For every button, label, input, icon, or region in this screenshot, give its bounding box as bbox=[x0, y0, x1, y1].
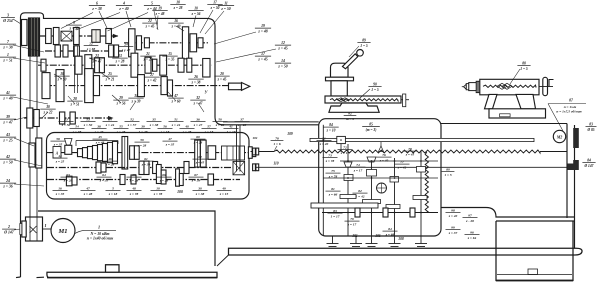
svg-text:z = 25: z = 25 bbox=[2, 138, 12, 142]
svg-text:z = 44: z = 44 bbox=[171, 123, 181, 127]
svg-text:z = 66: z = 66 bbox=[328, 192, 338, 196]
svg-text:42: 42 bbox=[5, 155, 10, 159]
svg-text:z = 18: z = 18 bbox=[204, 130, 214, 134]
svg-text:z - 28: z - 28 bbox=[465, 219, 474, 223]
svg-text:82: 82 bbox=[358, 189, 362, 193]
feed gear X c bbox=[156, 165, 161, 184]
cross slide diamond bbox=[337, 98, 349, 102]
gear on shaft I a bbox=[46, 29, 52, 44]
svg-text:3: 3 bbox=[6, 14, 9, 18]
feed gear IX c bbox=[153, 162, 158, 174]
svg-text:z = 17: z = 17 bbox=[347, 222, 357, 226]
svg-text:z = 18: z = 18 bbox=[160, 130, 170, 134]
feed rod bbox=[255, 166, 567, 168]
apron upper shaft bbox=[340, 160, 438, 162]
apron junction dots bbox=[347, 160, 349, 162]
svg-text:z = 48: z = 48 bbox=[2, 96, 12, 100]
svg-text:Ø 85: Ø 85 bbox=[586, 128, 594, 132]
apron gear h4 bbox=[413, 196, 427, 200]
feed shaft VIII bbox=[47, 152, 248, 154]
feed gear VIII d bbox=[208, 146, 216, 160]
gear on shaft III i bbox=[160, 55, 167, 75]
svg-text:54: 54 bbox=[75, 125, 79, 129]
svg-text:1 = 18: 1 = 18 bbox=[227, 130, 236, 134]
svg-text:24: 24 bbox=[5, 179, 10, 183]
headstock housing outline bbox=[21, 13, 319, 277]
chip pan left diagonal bbox=[217, 255, 229, 266]
svg-text:1 = 42: 1 = 42 bbox=[356, 194, 365, 198]
svg-text:101: 101 bbox=[352, 234, 358, 238]
svg-text:83: 83 bbox=[333, 209, 337, 213]
tailstock center tip bbox=[464, 84, 467, 89]
feed gear VIII pair b bbox=[200, 140, 206, 167]
feed gear X a bbox=[66, 176, 72, 186]
norton bracket line bbox=[76, 140, 118, 142]
svg-text:57: 57 bbox=[207, 125, 211, 129]
hs leader 3 bbox=[108, 13, 149, 32]
spindle nose arrow bbox=[229, 83, 242, 90]
gear on shaft III d bbox=[95, 58, 100, 73]
svg-text:z = 40: z = 40 bbox=[379, 158, 389, 162]
svg-text:29: 29 bbox=[118, 96, 123, 100]
svg-text:М2: М2 bbox=[556, 135, 563, 140]
svg-text:z = 20: z = 20 bbox=[319, 142, 329, 146]
leadscrew plain start bbox=[251, 151, 275, 153]
svg-text:z = 10: z = 10 bbox=[326, 128, 336, 132]
apron box outline bbox=[319, 119, 441, 236]
motor pulley frame bbox=[26, 217, 43, 241]
svg-text:92: 92 bbox=[348, 112, 352, 116]
svg-text:18: 18 bbox=[176, 1, 180, 5]
svg-text:z = 50: z = 50 bbox=[277, 64, 287, 68]
svg-text:М1: М1 bbox=[57, 228, 67, 235]
svg-text:z = 28: z = 28 bbox=[182, 130, 192, 134]
svg-text:N = 10 кВт: N = 10 кВт bbox=[89, 232, 109, 236]
svg-text:z = 48: z = 48 bbox=[95, 140, 105, 144]
feed gear X b bbox=[72, 177, 77, 185]
feed output gear 2 bbox=[252, 149, 255, 157]
apron lower shaft bbox=[322, 212, 438, 214]
svg-text:16: 16 bbox=[174, 19, 178, 23]
svg-text:28: 28 bbox=[72, 97, 77, 101]
apron cross bar bbox=[311, 203, 378, 208]
apron vertical shaft 1 bbox=[322, 125, 324, 236]
svg-text:z = 28: z = 28 bbox=[63, 178, 73, 182]
apron gear h1 bbox=[340, 195, 356, 199]
feed shaft IX bbox=[47, 167, 244, 169]
gear on shaft V c bbox=[60, 112, 65, 124]
motor shaft bbox=[43, 228, 52, 230]
gear on spindle d bbox=[161, 77, 167, 95]
svg-text:z = 28: z = 28 bbox=[105, 162, 115, 166]
svg-text:z = 45: z = 45 bbox=[405, 152, 415, 156]
apron vertical shaft 3 bbox=[371, 158, 373, 236]
svg-text:16: 16 bbox=[58, 187, 62, 191]
svg-text:z = 45: z = 45 bbox=[257, 57, 267, 61]
svg-text:98: 98 bbox=[451, 209, 455, 213]
right pedestal outline bbox=[496, 221, 573, 281]
reverse bevel gear bbox=[65, 139, 73, 146]
svg-text:z = 39: z = 39 bbox=[141, 162, 151, 166]
shaft V arrow bbox=[108, 116, 114, 120]
svg-text:10: 10 bbox=[156, 187, 160, 191]
belt line left bbox=[29, 56, 31, 217]
tool post stem bbox=[331, 81, 347, 96]
svg-text:13: 13 bbox=[118, 54, 122, 58]
svg-text:z = 28: z = 28 bbox=[116, 130, 126, 134]
belt line right bbox=[36, 56, 38, 217]
svg-text:37: 37 bbox=[239, 118, 244, 122]
gear on shaft II d bbox=[182, 27, 188, 59]
svg-text:z = 28: z = 28 bbox=[237, 123, 247, 127]
feed gear VIII b bbox=[130, 146, 135, 160]
svg-text:z = 17: z = 17 bbox=[340, 151, 350, 155]
cross slide plate bbox=[325, 96, 401, 103]
norton cone gears bbox=[78, 149, 83, 157]
svg-text:n = 1х40 об/мин: n = 1х40 об/мин bbox=[87, 237, 113, 241]
cross slide screw wavy bbox=[330, 99, 398, 101]
svg-text:z = 60: z = 60 bbox=[171, 99, 181, 103]
svg-text:z = 57: z = 57 bbox=[127, 123, 137, 127]
svg-text:1 = 5: 1 = 5 bbox=[444, 173, 451, 177]
svg-text:1 = 6: 1 = 6 bbox=[273, 142, 280, 146]
svg-text:z = 50: z = 50 bbox=[57, 77, 67, 81]
gear on shaft III b bbox=[75, 56, 82, 74]
tumbler lever box bbox=[53, 147, 61, 159]
apron gear v2 bbox=[367, 170, 377, 177]
bed top line right bbox=[441, 123, 567, 125]
svg-text:74: 74 bbox=[356, 163, 360, 167]
svg-text:z = 37: z = 37 bbox=[448, 231, 458, 235]
hs leader 11 bbox=[42, 112, 48, 118]
svg-text:z = 50: z = 50 bbox=[83, 123, 93, 127]
feed gear IX f bbox=[184, 162, 189, 174]
feed gear X h bbox=[120, 175, 125, 185]
hs leader 5 bbox=[89, 58, 97, 61]
svg-text:47: 47 bbox=[173, 94, 178, 98]
gear on shaft III e bbox=[99, 58, 104, 73]
svg-text:z = 38: z = 38 bbox=[149, 123, 159, 127]
svg-text:84: 84 bbox=[388, 227, 392, 231]
hs leader 1 bbox=[61, 13, 93, 29]
right pedestal bottom edge bbox=[496, 280, 573, 282]
svg-text:z = 56: z = 56 bbox=[191, 12, 201, 16]
svg-text:76: 76 bbox=[382, 153, 386, 157]
apron vertical shaft 5 bbox=[420, 150, 422, 236]
svg-text:22: 22 bbox=[88, 42, 93, 46]
svg-text:32: 32 bbox=[195, 96, 200, 100]
svg-text:z = 28: z = 28 bbox=[129, 178, 139, 182]
feed gear IX d bbox=[96, 162, 101, 173]
svg-text:83: 83 bbox=[589, 123, 593, 127]
svg-text:I: I bbox=[44, 223, 47, 228]
right bracket pulley lower bbox=[573, 160, 579, 170]
tumbler gear b bbox=[36, 138, 42, 168]
svg-text:43: 43 bbox=[5, 133, 10, 137]
feed gear X f bbox=[179, 174, 183, 186]
svg-text:45: 45 bbox=[97, 135, 102, 139]
hs leader 7 bbox=[100, 72, 110, 79]
svg-text:z = 45: z = 45 bbox=[145, 24, 155, 28]
svg-text:73: 73 bbox=[328, 154, 332, 158]
svg-text:84: 84 bbox=[329, 123, 333, 127]
svg-text:109: 109 bbox=[287, 132, 293, 136]
rack pinion stem bbox=[340, 144, 342, 152]
svg-text:15: 15 bbox=[168, 52, 172, 56]
gear on shaft III c bbox=[85, 55, 92, 76]
gear on shaft II a bbox=[129, 29, 135, 57]
svg-text:61: 61 bbox=[144, 157, 148, 161]
svg-text:Ø 147: Ø 147 bbox=[584, 164, 594, 168]
svg-text:88: 88 bbox=[522, 62, 526, 66]
hs leader 8 bbox=[168, 92, 176, 101]
svg-text:z = 28: z = 28 bbox=[193, 140, 203, 144]
feed output gear bbox=[248, 147, 252, 159]
svg-text:1 = 5: 1 = 5 bbox=[360, 44, 368, 48]
rack pinion box bbox=[337, 136, 346, 143]
svg-text:6: 6 bbox=[96, 2, 98, 6]
feed gear VIII pair a bbox=[195, 140, 201, 167]
svg-text:34: 34 bbox=[107, 118, 112, 122]
svg-text:1 = 5: 1 = 5 bbox=[520, 67, 528, 71]
svg-text:z = 78: z = 78 bbox=[328, 174, 338, 178]
chip pan bbox=[229, 248, 583, 255]
svg-text:25: 25 bbox=[107, 72, 112, 76]
feed gear X i bbox=[131, 175, 136, 184]
svg-text:z = 35: z = 35 bbox=[165, 142, 175, 146]
svg-text:z = 42: z = 42 bbox=[397, 165, 407, 169]
svg-text:5: 5 bbox=[151, 2, 153, 6]
svg-text:1 = 28: 1 = 28 bbox=[139, 130, 148, 134]
svg-text:101: 101 bbox=[252, 136, 258, 140]
apron worm wheel bbox=[377, 183, 387, 193]
svg-text:19: 19 bbox=[261, 24, 265, 28]
feed gearbox outline bbox=[47, 133, 250, 200]
svg-text:50: 50 bbox=[218, 118, 222, 122]
apron bevel gear 2 bbox=[367, 157, 376, 162]
svg-text:z = 28: z = 28 bbox=[137, 143, 147, 147]
tailstock body bbox=[485, 94, 498, 108]
gear on shaft III a bbox=[41, 59, 46, 71]
svg-text:63: 63 bbox=[66, 173, 70, 177]
svg-text:z = 28: z = 28 bbox=[83, 192, 93, 196]
gear on shaft II b bbox=[137, 36, 142, 50]
svg-text:z = 88: z = 88 bbox=[86, 47, 96, 51]
tailstock barrel bbox=[480, 79, 539, 95]
hs leader 10 bbox=[68, 96, 75, 104]
gear on shaft III l bbox=[203, 59, 210, 78]
shaft I arrow bbox=[113, 34, 119, 38]
svg-text:z = 35: z = 35 bbox=[55, 192, 65, 196]
svg-text:2: 2 bbox=[7, 225, 10, 229]
tumbler gear a bbox=[29, 143, 35, 167]
gear on spindle e bbox=[168, 80, 173, 96]
gear on shaft III f bbox=[131, 53, 138, 77]
svg-text:z = 64: z = 64 bbox=[467, 236, 477, 240]
gear on spindle b bbox=[85, 69, 94, 103]
gear on shaft I b bbox=[53, 28, 59, 45]
svg-text:41: 41 bbox=[228, 125, 233, 129]
svg-text:62: 62 bbox=[198, 155, 202, 159]
svg-text:n = 1х7,5 об/мин: n = 1х7,5 об/мин bbox=[556, 110, 581, 114]
svg-text:z = 47: z = 47 bbox=[2, 120, 13, 124]
svg-text:67: 67 bbox=[194, 173, 198, 177]
svg-text:89: 89 bbox=[362, 39, 366, 43]
svg-text:26: 26 bbox=[193, 75, 198, 79]
gear on spindle a2 bbox=[56, 70, 64, 102]
svg-text:z = 39: z = 39 bbox=[191, 178, 201, 182]
svg-text:z = 45: z = 45 bbox=[277, 46, 287, 50]
svg-text:z = 47: z = 47 bbox=[92, 59, 102, 63]
tool post flange bbox=[326, 77, 354, 81]
svg-text:41: 41 bbox=[5, 91, 10, 95]
gear on shaft IIa b bbox=[63, 45, 68, 57]
svg-text:59: 59 bbox=[140, 138, 144, 142]
svg-text:55: 55 bbox=[119, 125, 123, 129]
hs leader 6 bbox=[54, 74, 62, 79]
svg-text:64: 64 bbox=[102, 173, 106, 177]
svg-text:30: 30 bbox=[197, 187, 202, 191]
motor M1 circle bbox=[51, 219, 75, 243]
bed lower edge right of apron bbox=[441, 208, 575, 222]
hs leader 13 bbox=[198, 103, 204, 112]
svg-text:36: 36 bbox=[195, 118, 200, 122]
svg-text:z = 18: z = 18 bbox=[108, 192, 118, 196]
main drive pulley small bbox=[22, 20, 28, 46]
svg-text:z = 56: z = 56 bbox=[116, 101, 126, 105]
gear on shaft V a bbox=[27, 108, 33, 128]
svg-text:17: 17 bbox=[213, 1, 217, 5]
svg-text:z = 50: z = 50 bbox=[210, 6, 220, 10]
apron middle shaft bbox=[323, 177, 438, 179]
right pedestal tab bbox=[528, 269, 538, 275]
svg-text:110: 110 bbox=[273, 162, 278, 166]
svg-text:z = 38: z = 38 bbox=[195, 192, 205, 196]
gear on shaft IIa c bbox=[74, 46, 80, 57]
gear on shaft I d bbox=[92, 30, 100, 43]
svg-text:z = 78: z = 78 bbox=[129, 192, 139, 196]
svg-text:z = 78: z = 78 bbox=[153, 192, 163, 196]
svg-text:Ø 147: Ø 147 bbox=[3, 230, 14, 234]
svg-text:n = 1х4в: n = 1х4в bbox=[564, 105, 577, 109]
svg-text:z = 45: z = 45 bbox=[195, 160, 205, 164]
svg-text:z = 35: z = 35 bbox=[53, 142, 63, 146]
gear on spindle a bbox=[42, 73, 50, 99]
spindle shaft bbox=[45, 85, 228, 87]
halfnut mark bbox=[379, 146, 384, 152]
svg-text:96: 96 bbox=[470, 231, 474, 235]
svg-text:z = 28: z = 28 bbox=[159, 178, 169, 182]
apron lower gear b bbox=[383, 208, 388, 217]
svg-text:78: 78 bbox=[408, 147, 412, 151]
svg-text:21: 21 bbox=[145, 52, 150, 56]
apron vertical shaft 4 bbox=[394, 158, 396, 236]
svg-text:1: 1 bbox=[98, 225, 100, 230]
apron lower gear c bbox=[410, 208, 415, 217]
svg-text:38: 38 bbox=[96, 125, 101, 129]
svg-text:z = 47: z = 47 bbox=[121, 48, 131, 52]
svg-text:77: 77 bbox=[400, 160, 404, 164]
svg-text:19: 19 bbox=[158, 7, 162, 11]
svg-text:z = 21: z = 21 bbox=[105, 77, 115, 81]
svg-text:90: 90 bbox=[373, 83, 377, 87]
svg-text:z = 47: z = 47 bbox=[193, 123, 203, 127]
svg-text:z = 28: z = 28 bbox=[115, 59, 125, 63]
svg-text:39: 39 bbox=[140, 125, 145, 129]
hs leader 12 bbox=[130, 101, 136, 110]
svg-text:99: 99 bbox=[451, 226, 455, 230]
svg-text:z = 51: z = 51 bbox=[70, 102, 80, 106]
svg-text:z = 17: z = 17 bbox=[353, 168, 363, 172]
svg-text:46: 46 bbox=[107, 157, 112, 161]
svg-text:11: 11 bbox=[224, 2, 228, 6]
feed rod coupling bbox=[253, 164, 256, 171]
gear on shaft IIa a bbox=[55, 45, 60, 57]
apron gear h3 bbox=[386, 205, 400, 209]
shaft III bbox=[38, 64, 212, 66]
cabinet plinth tab bbox=[106, 265, 120, 273]
svg-text:66: 66 bbox=[162, 173, 166, 177]
leadscrew coupling bbox=[253, 148, 256, 155]
shaft II bbox=[124, 42, 208, 44]
svg-text:52: 52 bbox=[130, 118, 134, 122]
svg-text:27: 27 bbox=[149, 73, 154, 77]
apron vertical shaft 2 bbox=[347, 144, 349, 236]
svg-text:1 = 5: 1 = 5 bbox=[371, 88, 379, 92]
apron gear v1 bbox=[344, 175, 353, 181]
apron support feet bbox=[332, 236, 334, 244]
svg-text:44: 44 bbox=[57, 154, 62, 158]
gear on shaft II e bbox=[190, 34, 197, 52]
tailstock quill step bbox=[469, 83, 477, 91]
svg-text:20: 20 bbox=[219, 72, 224, 76]
leadscrew left bracket bbox=[236, 125, 238, 172]
hs leader 9 bbox=[112, 95, 121, 103]
apron gear v4 bbox=[417, 167, 426, 173]
svg-text:56: 56 bbox=[163, 125, 167, 129]
svg-text:10: 10 bbox=[60, 72, 64, 76]
chip pan bar middle bbox=[217, 243, 585, 266]
gear on shaft I e bbox=[106, 29, 112, 44]
friction clutch shaft I bbox=[61, 31, 72, 41]
bed top second line bbox=[223, 121, 319, 123]
svg-text:z = 28: z = 28 bbox=[173, 6, 183, 10]
feed gear IX a bbox=[139, 161, 144, 174]
svg-text:z = 40: z = 40 bbox=[448, 214, 458, 218]
gear on shaft III g bbox=[145, 57, 151, 73]
feed rod end dot bbox=[568, 164, 575, 171]
feed gear VIII tall bbox=[122, 137, 128, 170]
svg-text:108: 108 bbox=[398, 237, 404, 241]
gear on shaft III k bbox=[187, 58, 192, 72]
svg-text:z = 35: z = 35 bbox=[99, 178, 109, 182]
svg-text:z = 51: z = 51 bbox=[2, 58, 12, 62]
feed clutch box bbox=[222, 146, 245, 160]
gear on shaft IIa d bbox=[109, 45, 114, 57]
right pedestal inner line bbox=[497, 274, 572, 276]
svg-text:z = 15: z = 15 bbox=[219, 192, 229, 196]
leadscrew wavy line bbox=[274, 150, 540, 153]
apron lower gear a bbox=[355, 208, 360, 217]
feed box vertical link b bbox=[197, 140, 199, 167]
svg-text:z = 38: z = 38 bbox=[72, 130, 82, 134]
svg-text:72: 72 bbox=[343, 146, 347, 150]
svg-text:81: 81 bbox=[331, 187, 335, 191]
svg-text:31: 31 bbox=[133, 94, 138, 98]
feed box vertical link a bbox=[124, 137, 126, 170]
svg-text:58: 58 bbox=[56, 137, 60, 141]
svg-text:z = 45: z = 45 bbox=[217, 77, 227, 81]
